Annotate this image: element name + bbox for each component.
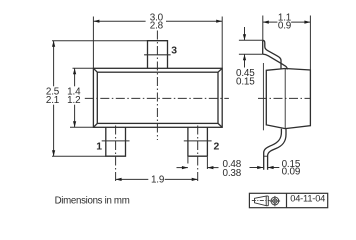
svg-text:2.8: 2.8 [150,20,164,31]
svg-text:3: 3 [171,46,177,57]
svg-text:1.9: 1.9 [151,175,165,186]
svg-text:0.09: 0.09 [282,167,301,178]
svg-text:1: 1 [96,142,102,153]
svg-text:0.9: 0.9 [278,20,292,31]
svg-text:04-11-04: 04-11-04 [290,193,325,203]
svg-text:1.2: 1.2 [67,95,80,106]
svg-text:Dimensions in mm: Dimensions in mm [55,196,130,207]
svg-text:2: 2 [214,142,220,153]
svg-text:0.38: 0.38 [223,168,242,179]
svg-text:0.15: 0.15 [236,77,255,88]
svg-text:2.1: 2.1 [46,95,60,106]
